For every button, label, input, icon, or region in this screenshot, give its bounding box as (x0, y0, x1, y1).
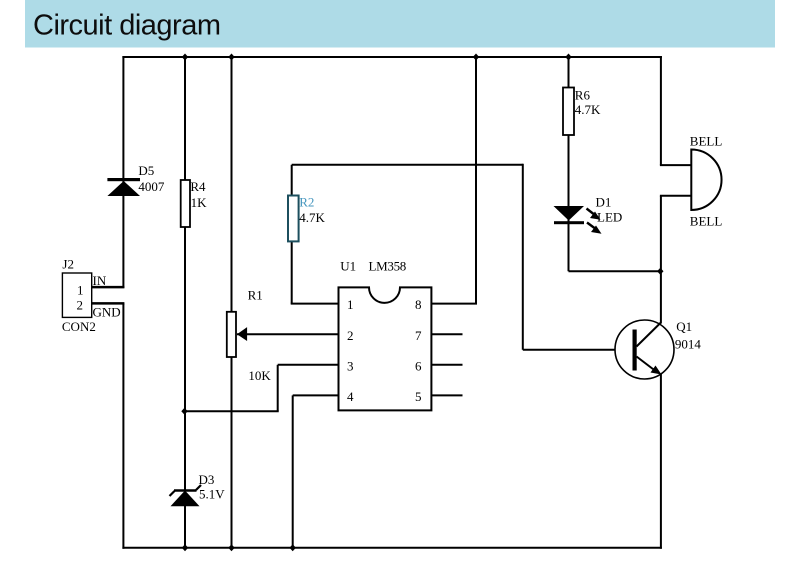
wire U1 pin3 (278, 364, 339, 366)
svg-text:R4: R4 (190, 179, 206, 194)
junction dot pin3 wire at R4 branch (181, 408, 187, 415)
zener diode D3 (170, 485, 202, 506)
svg-text:1: 1 (347, 297, 354, 312)
svg-text:IN: IN (93, 273, 107, 288)
svg-text:GND: GND (93, 305, 121, 320)
wire R6 D1 branch (568, 57, 570, 271)
resistor R6 (563, 88, 574, 136)
junction dot top rail at R1 branch (228, 54, 234, 61)
wire J2 pin1 IN (92, 286, 125, 289)
wire bell top terminal (660, 164, 691, 166)
svg-text:1K: 1K (191, 195, 208, 210)
wire R4 branch (184, 57, 186, 548)
svg-text:R1: R1 (248, 288, 263, 303)
svg-text:8: 8 (415, 297, 422, 312)
wire left rail lower (122, 303, 124, 548)
wire R2 branch vertical (291, 165, 293, 304)
svg-text:9014: 9014 (675, 337, 702, 352)
transistor Q1 (615, 320, 674, 379)
wire bottom rail (122, 547, 662, 549)
wire U1 pin4 vertical (292, 395, 294, 547)
wire U1 pin3 horizontal to R4 branch (184, 410, 279, 412)
wire right rail bottom emitter (660, 374, 662, 549)
wire U1 pin4 (293, 394, 339, 396)
svg-text:4.7K: 4.7K (299, 210, 325, 225)
wire U1 pin3 vertical (277, 365, 279, 412)
LED D1 (554, 206, 602, 234)
wire top rail (122, 56, 662, 58)
svg-text:Q1: Q1 (676, 319, 692, 334)
svg-text:LED: LED (597, 210, 622, 225)
svg-text:4: 4 (347, 389, 354, 404)
svg-text:7: 7 (415, 328, 422, 343)
wire pin8 vertical (475, 57, 477, 304)
svg-text:5: 5 (415, 389, 422, 404)
svg-text:5.1V: 5.1V (199, 487, 225, 502)
svg-text:1: 1 (77, 283, 84, 298)
svg-text:2: 2 (77, 298, 84, 313)
resistor R1 (227, 312, 236, 357)
junction dot bottom rail at R1 branch (228, 544, 234, 551)
connector J2 (62, 273, 91, 317)
wire U1 pin6 stub (431, 364, 462, 366)
wire U1 pin7 stub (431, 333, 462, 335)
svg-text:BELL: BELL (690, 214, 723, 229)
svg-text:U1: U1 (340, 259, 356, 274)
svg-text:J2: J2 (62, 257, 74, 272)
wire U1 pin2 wiper (237, 333, 339, 335)
svg-text:4.7K: 4.7K (575, 102, 601, 117)
svg-text:D5: D5 (138, 163, 154, 178)
junction dot D1 to collector rail (657, 268, 663, 275)
wire left rail upper (122, 56, 124, 288)
junction dot top rail at R4 branch (182, 54, 188, 61)
resistor R4 (181, 180, 190, 227)
svg-text:R2: R2 (299, 195, 314, 210)
svg-text:2: 2 (347, 328, 354, 343)
resistor R2 (288, 196, 299, 242)
svg-text:D3: D3 (199, 472, 215, 487)
junction dot bottom rail at pin4 vertical (290, 544, 296, 551)
wire right rail mid collector (660, 196, 662, 324)
diode D5 (107, 178, 140, 196)
junction dot bottom rail at R4 branch (182, 544, 188, 551)
wire U1 pin1 (291, 303, 339, 305)
wire Q1 base horizontal (523, 349, 635, 351)
junction dot top rail at pin8 vertical (473, 54, 479, 61)
svg-text:CON2: CON2 (62, 319, 96, 334)
svg-text:R6: R6 (575, 88, 591, 103)
svg-text:4007: 4007 (138, 179, 165, 194)
wire R1 branch (231, 57, 233, 548)
wire right rail top (660, 56, 662, 165)
IC U1 LM358 body (339, 287, 432, 410)
junction dot top rail at R6 branch (565, 54, 571, 61)
svg-text:3: 3 (347, 358, 354, 373)
bell (691, 150, 721, 211)
wire J2 pin2 GND (92, 302, 125, 305)
wire bell bottom terminal (660, 195, 691, 197)
wire mid horizontal R2 top (292, 164, 523, 166)
svg-text:Circuit diagram: Circuit diagram (33, 10, 221, 42)
svg-text:10K: 10K (248, 368, 271, 383)
svg-text:BELL: BELL (690, 134, 723, 149)
svg-text:D1: D1 (596, 195, 612, 210)
wire mid vertical to base (522, 164, 524, 350)
svg-text:LM358: LM358 (369, 259, 407, 274)
potentiometer R1 wiper arrow (237, 327, 247, 341)
wire U1 pin8 (431, 303, 477, 305)
wire D1 bottom horizontal (569, 270, 661, 272)
title bar (25, 0, 775, 48)
wire U1 pin5 stub (431, 394, 462, 396)
svg-text:6: 6 (415, 358, 422, 373)
